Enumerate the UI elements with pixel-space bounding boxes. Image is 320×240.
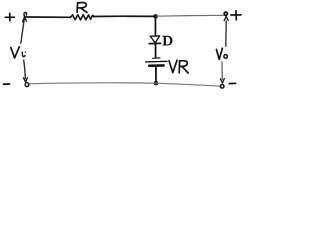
wire top left (node to resistor)	[25, 16, 71, 18]
Vo arrow up line	[225, 21, 227, 46]
Vi arrowhead down	[23, 78, 27, 83]
battery VR top tick	[153, 57, 160, 59]
resistor R	[71, 15, 94, 20]
minus sign bottom right	[229, 82, 235, 84]
Vi arrow down line	[24, 60, 26, 79]
Vo arrowhead down	[220, 79, 224, 83]
resistor label R	[77, 3, 87, 13]
junction dot top	[153, 14, 158, 19]
minus sign bottom left	[4, 83, 10, 85]
wire resistor to junction	[93, 15, 155, 17]
battery VR short thick plate	[149, 64, 163, 67]
plus sign top left	[5, 13, 14, 20]
diode label D	[162, 36, 172, 46]
junction dot bottom	[154, 81, 159, 86]
label Vo	[216, 48, 227, 59]
diode D	[149, 36, 160, 44]
plus sign top right	[231, 11, 241, 20]
wire junction down to diode	[154, 16, 156, 35]
label Vi	[11, 47, 26, 58]
wire diode to battery	[155, 44, 157, 58]
terminal knot top right	[224, 12, 227, 15]
Vi arrowhead up	[23, 17, 27, 22]
terminal circle bottom right	[220, 85, 224, 89]
wire junction to right terminal	[156, 14, 225, 17]
Vi arrow up line	[21, 19, 25, 44]
terminal circle bottom left	[25, 83, 29, 87]
battery label VR	[169, 60, 188, 73]
terminal hook top left	[24, 12, 27, 16]
battery VR long plate	[146, 60, 167, 63]
Vo arrowhead up	[224, 17, 228, 21]
bottom wire	[30, 83, 221, 86]
wire battery to bottom junction	[155, 67, 157, 83]
Vo arrow down line	[221, 62, 223, 80]
